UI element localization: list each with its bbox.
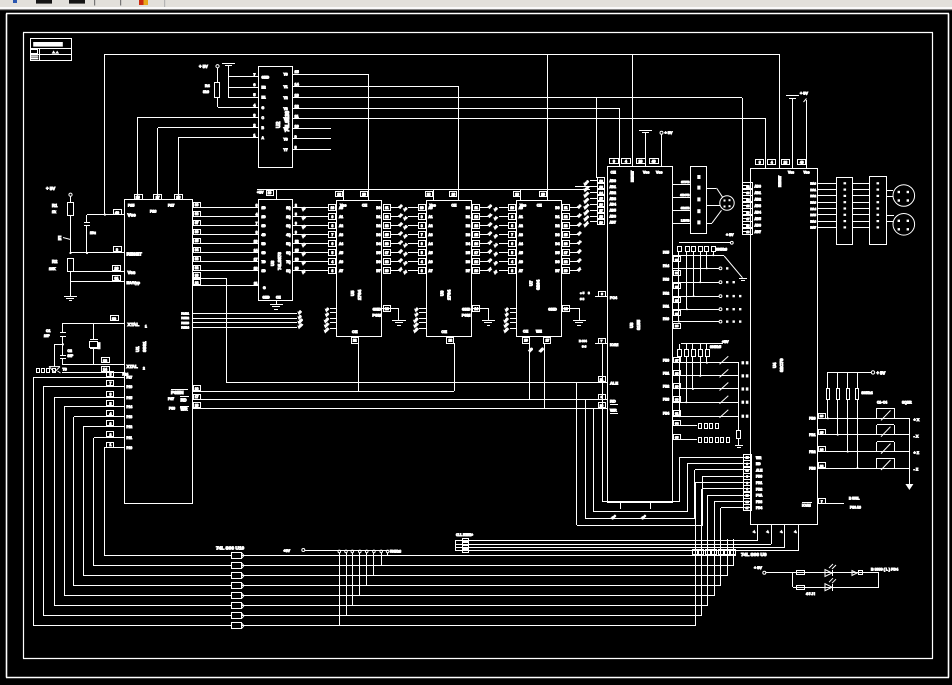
svg-text:12: 12 <box>385 215 389 219</box>
svg-text:17: 17 <box>474 251 478 255</box>
svg-text:D2: D2 <box>555 224 559 228</box>
svg-text:15: 15 <box>746 204 750 208</box>
svg-text:D3: D3 <box>555 233 559 237</box>
svg-text:+ 5: + 5 <box>580 291 585 295</box>
svg-text:22: 22 <box>353 338 357 342</box>
svg-text:ST0'B: ST0'B <box>681 180 690 184</box>
svg-text:300Xx6: 300Xx6 <box>716 248 727 252</box>
svg-text:U8: U8 <box>629 322 634 328</box>
svg-text:Y1: Y1 <box>284 85 288 89</box>
svg-text:8: 8 <box>295 146 297 150</box>
svg-text:PB0: PB0 <box>809 417 815 421</box>
svg-text:A3: A3 <box>519 233 523 237</box>
svg-text:AD2: AD2 <box>610 191 617 195</box>
svg-text:GND: GND <box>373 308 382 312</box>
svg-text:27: 27 <box>675 358 679 362</box>
svg-text:40: 40 <box>652 160 656 164</box>
svg-text:AD4: AD4 <box>610 203 617 207</box>
svg-text:30: 30 <box>675 398 679 402</box>
svg-text:16: 16 <box>385 242 389 246</box>
svg-text:+ 5V: + 5V <box>46 186 55 191</box>
svg-text:37: 37 <box>746 506 750 510</box>
svg-text:U6: U6 <box>439 290 444 296</box>
svg-text:2: 2 <box>295 204 297 208</box>
svg-text:PVA: PVA <box>756 494 763 498</box>
svg-text:12M: 12M <box>97 342 101 349</box>
svg-text:A6: A6 <box>519 260 523 264</box>
svg-text:6D: 6D <box>262 251 267 255</box>
svg-text:A5: A5 <box>428 251 432 255</box>
svg-text:3: 3 <box>256 204 258 208</box>
svg-text:RESET: RESET <box>127 252 143 257</box>
svg-text:AD6: AD6 <box>755 223 762 227</box>
svg-text:D0: D0 <box>555 206 559 210</box>
svg-text:A3: A3 <box>428 233 432 237</box>
svg-text:+ 5V: + 5V <box>800 92 808 96</box>
svg-text:P12: P12 <box>127 425 133 429</box>
svg-text:PA1: PA1 <box>663 305 669 309</box>
svg-text:2: 2 <box>253 124 255 128</box>
svg-text:11: 11 <box>385 206 389 210</box>
svg-text:37: 37 <box>195 221 199 225</box>
svg-text:6: 6 <box>511 242 513 246</box>
svg-text:8: 8 <box>332 224 334 228</box>
svg-text:A5: A5 <box>339 251 343 255</box>
svg-text:22: 22 <box>186 316 190 320</box>
svg-text:15: 15 <box>295 249 299 253</box>
svg-text:3D: 3D <box>262 224 267 228</box>
svg-text:1: 1 <box>110 443 112 447</box>
svg-text:PGM: PGM <box>462 314 471 318</box>
svg-text:Y0: Y0 <box>284 73 288 77</box>
svg-text:4: 4 <box>332 260 334 264</box>
svg-text:29: 29 <box>675 385 679 389</box>
svg-text:14: 14 <box>254 249 258 253</box>
svg-text:74L S06 U9: 74L S06 U9 <box>741 552 767 558</box>
svg-text:2764: 2764 <box>446 289 451 300</box>
svg-text:1k: 1k <box>52 210 56 214</box>
svg-text:P25: P25 <box>181 316 186 320</box>
svg-text:T0: T0 <box>63 368 67 372</box>
svg-text:Vss: Vss <box>788 171 794 175</box>
svg-text:28: 28 <box>675 371 679 375</box>
svg-text:2764: 2764 <box>357 289 362 300</box>
svg-text:3 8: 3 8 <box>580 297 585 301</box>
svg-text:PA3: PA3 <box>810 201 816 205</box>
svg-text:C2: C2 <box>68 349 72 353</box>
svg-text:26: 26 <box>541 193 545 197</box>
svg-text:P17: P17 <box>127 376 133 380</box>
svg-text:Y3: Y3 <box>284 107 288 111</box>
svg-text:15: 15 <box>474 233 478 237</box>
svg-text:GND: GND <box>462 308 471 312</box>
svg-text:4 5 J I: 4 5 J I <box>806 592 815 596</box>
svg-text:4: 4 <box>625 160 627 164</box>
svg-text:U1: U1 <box>135 346 140 352</box>
svg-text:19: 19 <box>385 269 389 273</box>
svg-text:15: 15 <box>295 70 299 74</box>
svg-text:18: 18 <box>385 260 389 264</box>
svg-text:U3: U3 <box>270 260 275 266</box>
svg-text:20P: 20P <box>44 334 51 338</box>
svg-text:9: 9 <box>295 231 297 235</box>
svg-text:PD0: PD0 <box>756 475 762 479</box>
svg-text:D7: D7 <box>466 269 470 273</box>
svg-text:18: 18 <box>103 359 107 363</box>
svg-text:1D: 1D <box>262 206 267 210</box>
svg-text:D2: D2 <box>466 224 470 228</box>
svg-text:G: G <box>262 106 265 110</box>
svg-text:SQ/2R: SQ/2R <box>902 401 912 405</box>
svg-text:7: 7 <box>421 233 423 237</box>
svg-text:12: 12 <box>564 215 568 219</box>
svg-text:PB3: PB3 <box>809 466 815 470</box>
svg-text:5: 5 <box>295 213 297 217</box>
svg-text:74L S06 U10: 74L S06 U10 <box>216 546 245 552</box>
svg-text:4D: 4D <box>262 233 267 237</box>
svg-text:D4: D4 <box>466 242 470 246</box>
svg-text:A0: A0 <box>339 206 343 210</box>
svg-text:25: 25 <box>136 195 140 199</box>
svg-text:AD4: AD4 <box>755 210 762 214</box>
svg-text:23: 23 <box>820 464 824 468</box>
svg-text:- X: - X <box>914 434 919 438</box>
svg-text:11: 11 <box>564 206 568 210</box>
svg-text:11: 11 <box>475 206 479 210</box>
svg-text:PA5: PA5 <box>663 251 669 255</box>
svg-text:14: 14 <box>599 191 603 195</box>
svg-text:3: 3 <box>421 269 423 273</box>
svg-text:PD3: PD3 <box>756 500 762 504</box>
svg-text:CE: CE <box>537 204 543 208</box>
svg-text:PB4: PB4 <box>663 412 669 416</box>
svg-text:PD2: PD2 <box>756 487 762 491</box>
svg-text:18: 18 <box>746 223 750 227</box>
svg-text:3: 3 <box>332 269 334 273</box>
svg-text:6: 6 <box>253 83 255 87</box>
svg-text:A7: A7 <box>519 269 523 273</box>
svg-text:PA7: PA7 <box>810 226 816 230</box>
svg-text:18: 18 <box>599 214 603 218</box>
svg-text:35: 35 <box>195 239 199 243</box>
svg-text:P37: P37 <box>168 397 174 401</box>
svg-text:E1: E1 <box>262 96 266 100</box>
svg-text:40: 40 <box>115 211 119 215</box>
svg-text:19: 19 <box>746 230 750 234</box>
svg-text:AD0: AD0 <box>755 184 762 188</box>
svg-text:D3: D3 <box>376 233 380 237</box>
svg-text:XTAL: XTAL <box>127 364 138 369</box>
svg-text:D5: D5 <box>555 251 559 255</box>
svg-text:22: 22 <box>449 338 453 342</box>
svg-text:6264: 6264 <box>536 279 541 290</box>
svg-text:5: 5 <box>110 402 112 406</box>
svg-text:20: 20 <box>639 160 643 164</box>
svg-text:7: 7 <box>256 222 258 226</box>
svg-text:2D: 2D <box>262 215 267 219</box>
svg-text:PS0 A0: PS0 A0 <box>850 506 861 510</box>
svg-text:7D: 7D <box>262 260 267 264</box>
svg-text:PA3: PA3 <box>663 278 669 282</box>
svg-text:17: 17 <box>254 258 258 262</box>
svg-text:PA6: PA6 <box>810 219 816 223</box>
svg-text:WR: WR <box>181 407 188 412</box>
svg-text:PA0: PA0 <box>810 182 816 186</box>
svg-text:U5: U5 <box>350 290 355 296</box>
svg-text:+5V: +5V <box>284 549 291 553</box>
svg-text:Vcc: Vcc <box>804 171 810 175</box>
svg-text:16: 16 <box>295 258 299 262</box>
svg-text:33: 33 <box>746 468 750 472</box>
svg-text:D6: D6 <box>555 260 559 264</box>
svg-text:PC4: PC4 <box>610 296 617 300</box>
svg-text:AD2: AD2 <box>755 197 762 201</box>
svg-text:8Q: 8Q <box>286 269 291 273</box>
svg-text:15: 15 <box>564 233 568 237</box>
svg-text:10K: 10K <box>49 267 56 271</box>
svg-text:Vss: Vss <box>643 171 649 175</box>
svg-text:PB3: PB3 <box>663 398 669 402</box>
svg-text:R4: R4 <box>205 84 210 88</box>
svg-text:300Xx4: 300Xx4 <box>862 391 873 395</box>
svg-text:SBC'B: SBC'B <box>680 193 690 197</box>
svg-text:EA/Vpp: EA/Vpp <box>127 281 141 285</box>
svg-text:32: 32 <box>195 266 199 270</box>
svg-text:4: 4 <box>771 161 773 165</box>
svg-text:23: 23 <box>186 321 190 325</box>
svg-text:1: 1 <box>145 325 147 329</box>
svg-text:18: 18 <box>564 260 568 264</box>
svg-text:4: 4 <box>110 412 112 416</box>
svg-text:PB2: PB2 <box>809 450 815 454</box>
svg-text:26: 26 <box>820 414 824 418</box>
svg-text:D5: D5 <box>376 251 380 255</box>
svg-text:P24: P24 <box>181 312 186 316</box>
svg-text:U7: U7 <box>529 280 534 286</box>
svg-text:2: 2 <box>143 367 145 371</box>
svg-text:6: 6 <box>332 242 334 246</box>
svg-text:A7: A7 <box>428 269 432 273</box>
svg-text:AD7: AD7 <box>610 220 617 224</box>
svg-text:A2: A2 <box>339 224 343 228</box>
svg-text:24: 24 <box>820 447 824 451</box>
svg-text:8: 8 <box>421 224 423 228</box>
svg-text:D0: D0 <box>376 206 380 210</box>
svg-text:Vcc: Vcc <box>128 213 137 218</box>
svg-text:D4: D4 <box>376 242 380 246</box>
svg-text:18: 18 <box>254 267 258 271</box>
svg-text:A0: A0 <box>428 206 432 210</box>
svg-text:+ Z: + Z <box>914 451 920 455</box>
svg-text:P13: P13 <box>127 415 133 419</box>
svg-text:P27: P27 <box>168 204 174 208</box>
svg-text:CLL K1K1+: CLL K1K1+ <box>456 533 473 537</box>
svg-text:2Q: 2Q <box>286 215 291 219</box>
svg-text:PD4: PD4 <box>756 506 762 510</box>
svg-text:3: 3 <box>253 113 255 117</box>
svg-text:A1: A1 <box>519 215 523 219</box>
svg-text:26: 26 <box>176 195 180 199</box>
svg-text:AD3: AD3 <box>755 204 762 208</box>
svg-text:17: 17 <box>195 395 199 399</box>
svg-text:33: 33 <box>195 257 199 261</box>
svg-text:9: 9 <box>421 215 423 219</box>
svg-text:16: 16 <box>474 242 478 246</box>
svg-text:RESET: RESET <box>631 170 635 182</box>
svg-text:+ 5V: + 5V <box>665 131 673 135</box>
svg-text:8: 8 <box>511 224 513 228</box>
svg-text:5: 5 <box>253 93 255 97</box>
svg-text:Vss: Vss <box>128 270 136 275</box>
svg-text:7: 7 <box>511 233 513 237</box>
svg-text:34: 34 <box>195 248 199 252</box>
svg-text:16: 16 <box>746 210 750 214</box>
svg-text:U4: U4 <box>772 362 777 368</box>
svg-text:5Q: 5Q <box>286 242 291 246</box>
svg-text:A1: A1 <box>428 215 432 219</box>
svg-text:CE: CE <box>611 171 617 175</box>
svg-text:28: 28 <box>195 281 199 285</box>
svg-text:30P: 30P <box>68 354 75 358</box>
svg-text:PA4: PA4 <box>663 264 669 268</box>
svg-text:AD6: AD6 <box>610 215 617 219</box>
svg-text:28: 28 <box>427 193 431 197</box>
svg-text:39: 39 <box>195 203 199 207</box>
svg-text:CE: CE <box>451 204 457 208</box>
svg-text:+ 5V: + 5V <box>754 566 762 570</box>
svg-text:10: 10 <box>420 206 424 210</box>
svg-text:RD: RD <box>756 462 761 466</box>
svg-text:20: 20 <box>115 267 119 271</box>
svg-text:PB1: PB1 <box>663 371 669 375</box>
svg-text:300Xx5: 300Xx5 <box>710 345 721 349</box>
svg-text:15: 15 <box>385 233 389 237</box>
svg-text:- Z: - Z <box>914 468 919 472</box>
svg-text:B 804: B 804 <box>579 339 587 343</box>
svg-text:35: 35 <box>675 436 679 440</box>
svg-text:12: 12 <box>295 240 299 244</box>
svg-text:29: 29 <box>195 387 199 391</box>
svg-text:10u: 10u <box>90 231 96 235</box>
svg-text:Y2: Y2 <box>284 96 288 100</box>
svg-text:4: 4 <box>421 260 423 264</box>
svg-text:RD: RD <box>610 399 616 404</box>
svg-text:7: 7 <box>253 73 255 77</box>
svg-text:6: 6 <box>110 393 112 397</box>
svg-text:D7: D7 <box>555 269 559 273</box>
svg-text:P11: P11 <box>127 436 133 440</box>
svg-text:D1: D1 <box>555 215 559 219</box>
svg-text:20: 20 <box>362 193 366 197</box>
svg-text:20: 20 <box>268 191 272 195</box>
svg-text:A5: A5 <box>519 251 523 255</box>
svg-text:13: 13 <box>254 240 258 244</box>
svg-text:P16: P16 <box>127 385 133 389</box>
svg-text:WE: WE <box>536 330 542 334</box>
svg-text:OE: OE <box>523 330 529 334</box>
svg-text:WR: WR <box>756 456 762 460</box>
svg-text:D7: D7 <box>376 269 380 273</box>
svg-text:D6: D6 <box>466 260 470 264</box>
svg-text:5: 5 <box>421 251 423 255</box>
svg-text:5D: 5D <box>262 242 267 246</box>
svg-text:8031: 8031 <box>142 341 148 352</box>
svg-text:8155: 8155 <box>636 319 641 330</box>
svg-text:AD0: AD0 <box>610 179 617 183</box>
svg-text:OE: OE <box>441 330 447 334</box>
svg-text:D1: D1 <box>376 215 380 219</box>
svg-text:LH4'B: LH4'B <box>681 218 690 222</box>
svg-text:19: 19 <box>112 317 116 321</box>
svg-text:AD5: AD5 <box>610 209 617 213</box>
svg-text:10: 10 <box>295 125 299 129</box>
svg-text:13: 13 <box>295 94 299 98</box>
svg-text:A3: A3 <box>339 233 343 237</box>
svg-text:13: 13 <box>474 224 478 228</box>
svg-text:PA4: PA4 <box>810 207 816 211</box>
svg-text:36: 36 <box>195 230 199 234</box>
svg-text:31: 31 <box>115 277 119 281</box>
svg-text:6: 6 <box>421 242 423 246</box>
svg-text:3-8: 3-8 <box>582 345 587 349</box>
svg-text:D4: D4 <box>555 242 559 246</box>
svg-text:A4: A4 <box>519 242 523 246</box>
svg-text:Vcc: Vcc <box>656 171 662 175</box>
svg-text:26: 26 <box>675 324 679 328</box>
svg-text:74LS373: 74LS373 <box>277 252 282 270</box>
svg-text:GND: GND <box>548 308 557 312</box>
svg-text:P36: P36 <box>169 406 175 410</box>
svg-text:3: 3 <box>511 269 513 273</box>
svg-text:WR: WR <box>610 407 617 412</box>
svg-text:12: 12 <box>295 105 299 109</box>
svg-text:6: 6 <box>295 222 297 226</box>
svg-text:3Q: 3Q <box>286 224 291 228</box>
svg-text:PA5: PA5 <box>810 213 816 217</box>
svg-text:ALE: ALE <box>756 468 762 472</box>
svg-text:C1: C1 <box>46 329 50 333</box>
svg-text:OE: OE <box>352 330 358 334</box>
svg-text:34: 34 <box>675 422 679 426</box>
svg-text:13: 13 <box>385 224 389 228</box>
svg-text:5: 5 <box>332 251 334 255</box>
svg-text:D6: D6 <box>376 260 380 264</box>
svg-text:19: 19 <box>599 220 603 224</box>
svg-text:17: 17 <box>385 251 389 255</box>
svg-text:P26: P26 <box>150 210 156 214</box>
svg-text:AD7: AD7 <box>755 230 762 234</box>
svg-text:12: 12 <box>599 179 603 183</box>
svg-text:500Xx8: 500Xx8 <box>390 550 401 554</box>
svg-text:9: 9 <box>759 161 761 165</box>
svg-text:D3: D3 <box>466 233 470 237</box>
svg-text:PSEN: PSEN <box>171 390 184 395</box>
svg-text:P14: P14 <box>127 405 133 409</box>
svg-text:A1: A1 <box>339 215 343 219</box>
svg-text:12: 12 <box>474 215 478 219</box>
svg-text:12: 12 <box>746 184 750 188</box>
svg-text:20: 20 <box>524 338 528 342</box>
svg-text:11: 11 <box>254 282 258 286</box>
svg-text:PA2: PA2 <box>663 292 669 296</box>
svg-text:P15: P15 <box>127 396 133 400</box>
svg-text:17: 17 <box>564 251 568 255</box>
svg-text:B 8099 ( L ) PD4: B 8099 ( L ) PD4 <box>871 567 898 571</box>
svg-text:19: 19 <box>474 269 478 273</box>
svg-text:19: 19 <box>295 267 299 271</box>
svg-text:PGM: PGM <box>372 314 381 318</box>
svg-text:7: 7 <box>332 233 334 237</box>
